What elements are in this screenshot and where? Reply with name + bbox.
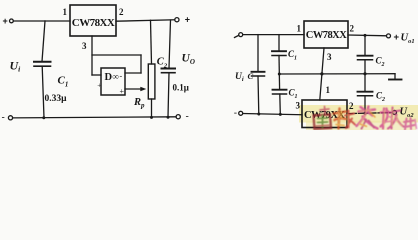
svg-text:+: + [3, 16, 8, 26]
wire (op-amp output with arrow to Rp wiper) [125, 88, 142, 90]
wire (Rp bottom to bottom rail) [151, 99, 153, 118]
label Uo2 [400, 107, 415, 120]
wire (input cap C to bottom rail) [257, 76, 260, 115]
node - (bottom right minus label) [186, 112, 189, 123]
wire (feedback into op-amp right top) [125, 72, 141, 74]
label UO (output voltage) [182, 52, 195, 66]
svg-text:+: + [120, 87, 125, 96]
pin 1 label U4 [326, 85, 331, 95]
svg-text:∞: ∞ [113, 72, 119, 82]
wire (pin3 to op-amp left input) [92, 74, 101, 76]
svg-text:+: + [394, 32, 400, 43]
wire (C2 upper to mid rail) [364, 60, 366, 74]
junction (C1 bottom) [42, 116, 45, 119]
wire (input cap C drop) [257, 35, 259, 72]
label C2 lower [376, 91, 385, 104]
wire (C1 branch drop from top rail) [42, 21, 45, 62]
wire (pin2 of U1 to output terminal) [116, 20, 175, 21]
capacitor C2 [162, 68, 176, 70]
svg-text:1: 1 [63, 7, 68, 17]
regulator U1 CW78XX [70, 5, 116, 36]
label C input cap [248, 71, 254, 81]
wire (C1 column bottom) [279, 94, 282, 115]
svg-text:C1: C1 [289, 88, 298, 101]
output terminal Uo2 circle [393, 110, 397, 114]
capacitor C1 upper [272, 50, 286, 52]
svg-text:3: 3 [82, 41, 87, 51]
wire (C2 branch drop from top rail) [169, 20, 171, 68]
junction (C1 column bottom) [279, 113, 282, 116]
label C1 [58, 75, 69, 89]
regulator U3 CW78XX (top) [304, 21, 348, 48]
node + (output plus label) [185, 14, 190, 24]
wire (U3 pin2 to output terminal) [348, 34, 386, 37]
pin 1 label U3 [297, 24, 302, 34]
svg-text:C2: C2 [376, 56, 385, 69]
watermark glyph 5 [404, 118, 417, 130]
svg-text:CW78XX: CW78XX [72, 17, 115, 29]
svg-text:3: 3 [296, 101, 301, 111]
wire (C1 column top) [278, 35, 280, 51]
wire (top rail to pin1 of U3) [243, 34, 304, 36]
svg-text:3: 3 [327, 52, 332, 62]
svg-text:0.1μ: 0.1μ [173, 82, 189, 92]
svg-text:CW78XX: CW78XX [306, 30, 347, 41]
wire (pin3 of U1 down) [91, 36, 93, 75]
input terminal right circuit (stub + circle) [235, 35, 239, 37]
junction (C2 top tap) [364, 34, 367, 37]
label C1 lower [289, 88, 298, 101]
svg-text:+: + [185, 14, 190, 24]
label C2 upper [376, 56, 385, 69]
svg-text:-: - [186, 112, 189, 123]
watermark glyph 4 [381, 108, 404, 129]
svg-text:-: - [120, 72, 123, 81]
watermark glyph 2 [334, 109, 356, 129]
pin 1 label U1 [63, 7, 68, 17]
label 0.33u [45, 94, 68, 104]
wire (U4 pin2 to output Uo2) [347, 113, 392, 114]
potentiometer Rp [148, 64, 155, 99]
junction (C1 midpoint) [278, 73, 281, 76]
ground symbol [394, 74, 396, 80]
pin + label U2 [120, 87, 125, 96]
label Uo1 [401, 33, 415, 46]
watermark glyph 3 [357, 107, 378, 129]
pin 3 label U1 [82, 41, 87, 51]
node + (Uo1 plus) [394, 32, 400, 43]
svg-text:-: - [2, 113, 5, 124]
label C1 upper [288, 49, 297, 62]
svg-text:Rp: Rp [133, 97, 145, 109]
watermark glyph highlights [339, 109, 403, 127]
junction (input cap bottom) [257, 113, 260, 116]
junction (C2 lower tap) [364, 112, 367, 115]
svg-text:C1: C1 [288, 49, 297, 62]
pin 3 label U4 [296, 101, 301, 111]
svg-text:2: 2 [350, 24, 355, 34]
wire (C1 column middle) [278, 56, 281, 90]
wire (C1 to bottom rail) [42, 66, 44, 118]
watermark glyph 1 [314, 107, 332, 130]
wire (C2 lower to output line) [364, 96, 366, 114]
junction (regulator common) [320, 72, 323, 75]
junction (C2 mid tap) [363, 72, 366, 75]
svg-text:C2: C2 [157, 57, 168, 70]
wire (middle common rail) [279, 73, 395, 75]
capacitor C2 lower [358, 91, 373, 93]
svg-text:1: 1 [297, 24, 302, 34]
label C2 [157, 57, 168, 70]
wire (bottom rail to pin3 of U4) [243, 114, 302, 115]
wire (input to pin1 of U1) [13, 20, 70, 22]
capacitor C (input) [252, 71, 265, 73]
svg-text:0.33μ: 0.33μ [45, 94, 68, 104]
bottom-left terminal circle [8, 116, 12, 120]
capacitor C2 upper [358, 55, 373, 57]
label Rp [133, 97, 145, 109]
svg-text:+: + [97, 81, 101, 89]
wire (Rp top to top rail) [151, 20, 152, 64]
wire (feedback vertical drop) [140, 55, 142, 73]
svg-text:Ui: Ui [10, 58, 22, 73]
svg-text:UO: UO [182, 52, 195, 66]
svg-text:Ui: Ui [235, 72, 244, 83]
node + (input plus terminal label) [3, 16, 8, 26]
svg-text:-: - [234, 108, 237, 119]
regulator U4 CW79XX (bottom) [302, 100, 347, 128]
svg-text:Uo1: Uo1 [401, 33, 415, 46]
svg-text:2: 2 [119, 7, 124, 17]
svg-text:2: 2 [349, 101, 354, 111]
bottom-right terminal circle [176, 115, 180, 119]
label 0.1u [173, 82, 189, 92]
pin + label U2 left [97, 81, 101, 89]
svg-text:C1: C1 [58, 75, 69, 89]
capacitor C1 [34, 61, 51, 63]
bottom-left terminal right circuit [239, 111, 243, 115]
wire (C2 upper drop) [364, 35, 366, 55]
junction (C2 bottom) [167, 116, 170, 119]
pin 2 label U3 [350, 24, 355, 34]
input terminal (top-left circle) [10, 19, 14, 23]
pin 3 label U3 [327, 52, 332, 62]
wire (bottom rail) [13, 117, 176, 118]
label Ui right circuit [235, 72, 244, 83]
label Ui (input voltage) [10, 58, 22, 73]
pin 2 label U4 [349, 101, 354, 111]
svg-text:C: C [248, 71, 254, 81]
svg-text:D: D [105, 72, 113, 83]
watermark highlight band [299, 105, 418, 123]
node - (bottom left minus label) [2, 113, 5, 124]
svg-text:1: 1 [326, 85, 331, 95]
wire (pin3 of U3 down through mid rail to pin1 of U4) [320, 48, 324, 100]
output terminal (top-right circle) [175, 18, 179, 22]
pin 2 label U1 [119, 7, 124, 17]
wire (C2 to bottom rail) [168, 73, 169, 118]
pin - label U2 [120, 72, 123, 81]
capacitor C1 lower [273, 89, 287, 91]
junction (Rp bottom) [150, 116, 153, 119]
svg-text:C2: C2 [376, 91, 385, 104]
output terminal Uo1 circle [387, 34, 391, 38]
op-amp U2 (D-infinity block) [101, 68, 125, 95]
node - (right circuit minus) [234, 108, 237, 119]
wire (C2 lower from mid rail) [364, 74, 366, 92]
wire (feedback top horizontal) [92, 54, 141, 56]
